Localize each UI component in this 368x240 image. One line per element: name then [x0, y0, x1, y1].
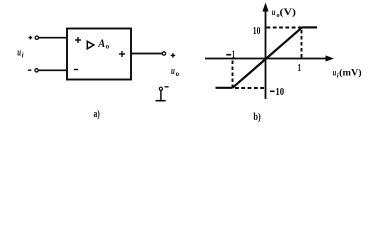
svg-text:o: o [106, 44, 110, 51]
svg-text:(mV): (mV) [339, 68, 362, 79]
svg-text:10: 10 [275, 86, 284, 98]
svg-text:a): a) [94, 109, 100, 120]
svg-text:(V): (V) [280, 7, 297, 18]
svg-text:o: o [176, 70, 180, 78]
svg-text:10: 10 [253, 25, 261, 37]
svg-text:u: u [171, 66, 175, 77]
svg-text:i: i [22, 51, 24, 59]
svg-text:b): b) [253, 112, 260, 123]
svg-text:u: u [272, 8, 276, 18]
svg-text:A: A [97, 36, 105, 50]
svg-text:1: 1 [298, 62, 302, 74]
svg-text:1: 1 [232, 49, 235, 61]
svg-text:u: u [333, 69, 337, 79]
